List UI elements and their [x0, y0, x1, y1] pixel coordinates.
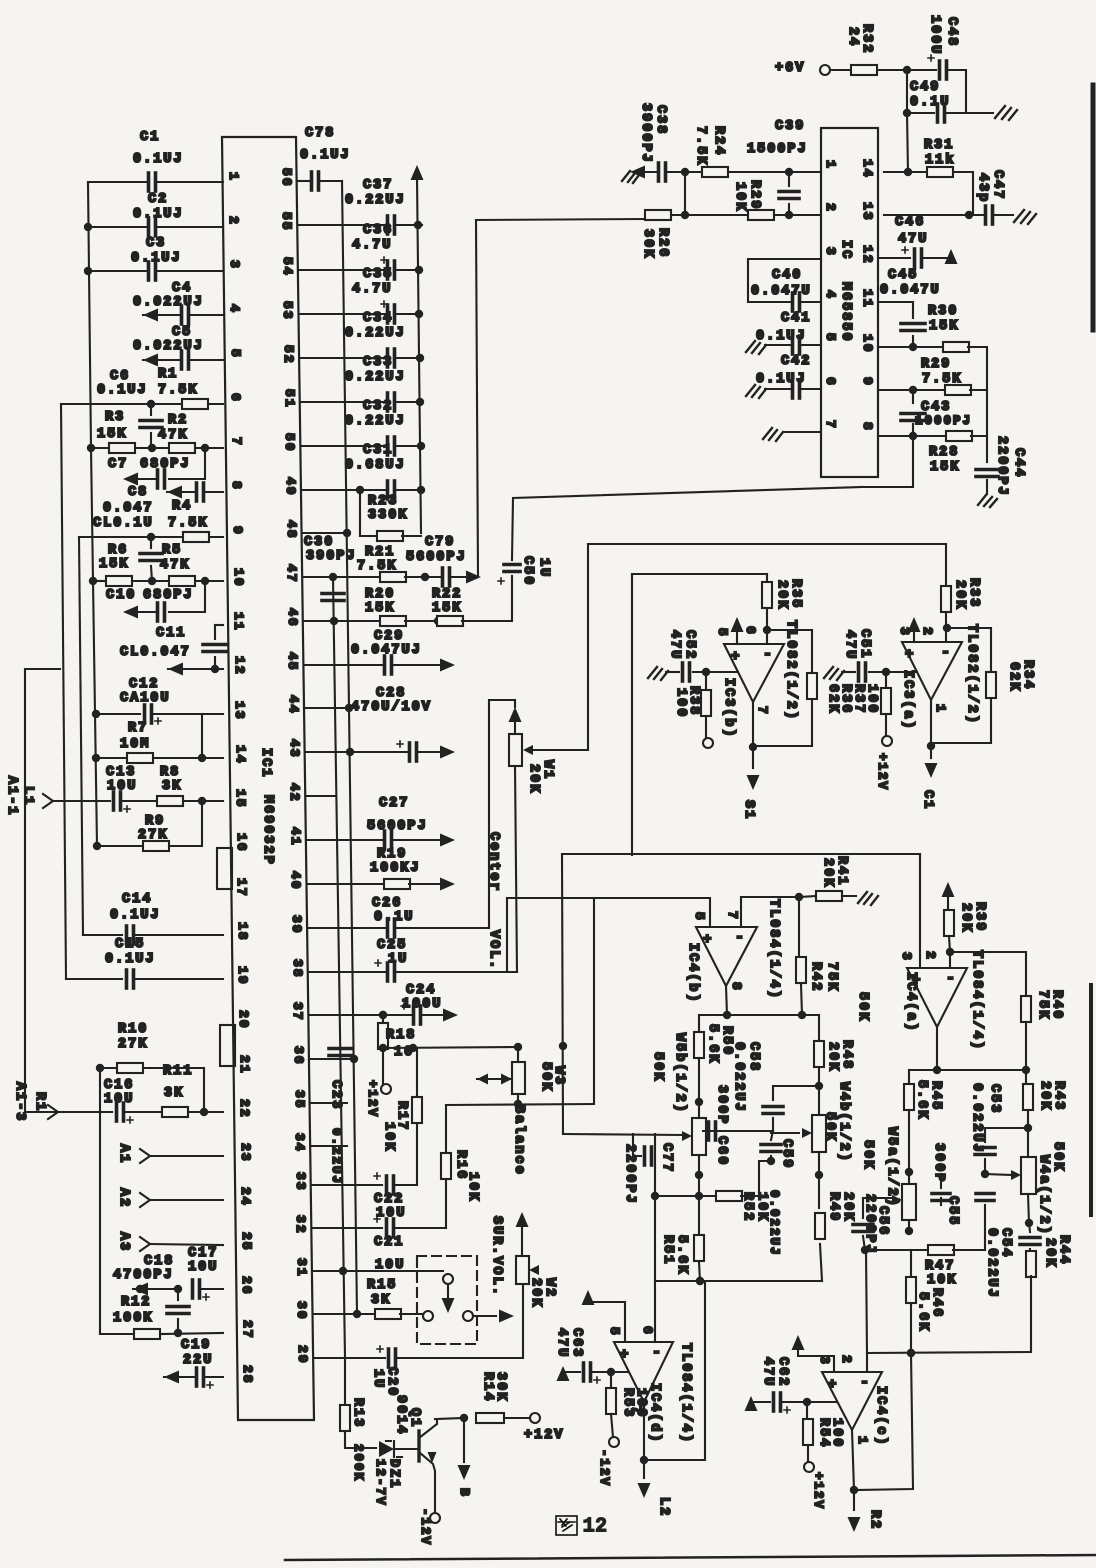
svg-text:R31: R31: [924, 138, 954, 153]
dashed switch box: [417, 1256, 477, 1344]
svg-text:41: 41: [288, 827, 303, 847]
svg-text:C63: C63: [569, 1328, 584, 1358]
IC3(b) output: [752, 702, 754, 747]
row 38 capacitor C25: [309, 971, 385, 973]
row 45 capacitor C29: [304, 664, 382, 666]
svg-text:TL082(1/2): TL082(1/2): [783, 620, 798, 721]
capacitor C42 pin6: [746, 385, 766, 398]
svg-text:+: +: [905, 647, 913, 663]
svg-text:R30: R30: [928, 304, 958, 319]
svg-text:W2: W2: [542, 1278, 557, 1298]
svg-text:C53: C53: [987, 1084, 1002, 1114]
svg-text:C5: C5: [172, 325, 192, 340]
svg-text:50K: 50K: [1050, 1142, 1065, 1172]
M65850 IC body: [821, 128, 878, 477]
svg-text:-12V: -12V: [597, 1449, 611, 1487]
svg-text:4.7U: 4.7U: [352, 282, 392, 297]
svg-text:C2: C2: [148, 192, 168, 207]
capacitor C56: [862, 1198, 864, 1218]
pin3 to C40 loop: [748, 259, 821, 302]
svg-text:5: 5: [607, 1327, 622, 1337]
svg-text:680PJ: 680PJ: [143, 588, 194, 603]
capacitor C30 on bus B: [322, 592, 344, 596]
svg-text:6: 6: [743, 626, 758, 636]
right edge mark middle: [1089, 985, 1093, 1215]
svg-text:C39: C39: [775, 119, 805, 134]
wire +6V node to pin14: [907, 113, 908, 172]
svg-text:C59: C59: [779, 1139, 794, 1169]
IC4(a) output: [936, 1027, 938, 1070]
svg-text:2: 2: [839, 1355, 854, 1365]
capacitor C47 row pin13: [884, 214, 983, 216]
svg-text:5: 5: [823, 333, 838, 343]
potentiometer W3 Balance: [514, 1043, 522, 1051]
svg-text:4700PJ: 4700PJ: [113, 1268, 174, 1283]
svg-text:56: 56: [279, 168, 294, 188]
IC4(d) feedback: [644, 1281, 705, 1460]
svg-text:2: 2: [920, 627, 935, 637]
svg-text:47U: 47U: [760, 1357, 775, 1387]
svg-text:C20: C20: [384, 1367, 399, 1397]
svg-text:30K: 30K: [640, 229, 655, 259]
IC4(c) + input enters left side: [835, 1401, 837, 1403]
svg-text:R21: R21: [365, 545, 395, 560]
long wire IC3 section to IC4 section: [562, 853, 920, 855]
svg-text:S1: S1: [741, 800, 756, 820]
capacitor C77: [633, 1134, 641, 1156]
svg-text:R40: R40: [1049, 990, 1064, 1020]
svg-text:47: 47: [284, 564, 299, 584]
svg-text:100: 100: [829, 1418, 844, 1448]
row 43 capacitor C28: [306, 751, 407, 753]
resistor R43: [1025, 1070, 1027, 1083]
capacitor C13 and resistor R8 row 15: [53, 800, 110, 802]
svg-text:IC1: IC1: [258, 748, 273, 778]
bus A vertical (from C78): [342, 181, 357, 1314]
svg-text:22: 22: [237, 1099, 252, 1119]
svg-text:W5a(1/2): W5a(1/2): [884, 1127, 899, 1208]
IC3(a) feedback with R34: [947, 628, 991, 671]
capacitor C78 row 56: [297, 180, 309, 182]
resistor R45: [908, 1070, 910, 1083]
svg-text:15: 15: [233, 789, 248, 809]
svg-text:38: 38: [290, 959, 305, 979]
resistor R35: [766, 574, 768, 581]
capacitor C52 with ground: [648, 667, 668, 680]
capacitor C8 row 8: [167, 486, 182, 499]
svg-text:26: 26: [239, 1276, 254, 1296]
capacitor C7 branch: [169, 448, 205, 479]
IC4(d) output: [643, 1402, 645, 1460]
svg-text:0.1UJ: 0.1UJ: [133, 207, 184, 222]
svg-text:5.6K: 5.6K: [914, 1080, 929, 1120]
svg-text:20K: 20K: [774, 580, 789, 610]
svg-text:54: 54: [280, 257, 295, 277]
svg-text:C14: C14: [122, 892, 152, 907]
svg-text:TL082(1/2): TL082(1/2): [964, 624, 979, 725]
svg-text:5: 5: [228, 349, 243, 359]
svg-text:R39: R39: [972, 902, 987, 932]
row 36 stub: [309, 1058, 354, 1060]
IC3(a) input resistor R33: [945, 544, 947, 586]
svg-text:100K: 100K: [113, 1311, 153, 1326]
svg-text:10: 10: [231, 568, 246, 588]
svg-text:35: 35: [292, 1090, 307, 1110]
svg-text:46: 46: [285, 608, 300, 628]
svg-text:14: 14: [860, 159, 875, 179]
svg-text:5.6K: 5.6K: [674, 1235, 689, 1275]
resistors R6 and R5 row 10: [89, 577, 97, 585]
svg-text:0.1UJ: 0.1UJ: [97, 383, 148, 398]
svg-text:R54: R54: [816, 1418, 831, 1448]
row 39 capacitor C26: [308, 927, 385, 929]
svg-text:B: B: [457, 1488, 472, 1498]
svg-text:1U: 1U: [536, 558, 551, 578]
resistor R24 pin1 wire: [685, 171, 702, 173]
svg-text:C15: C15: [115, 937, 145, 952]
IC4(a) output wire: [909, 1069, 1026, 1071]
svg-text:C19: C19: [181, 1338, 211, 1353]
svg-text:0.022UJ: 0.022UJ: [133, 295, 204, 310]
fig caption: [556, 1516, 577, 1535]
svg-text:R4: R4: [172, 499, 192, 514]
svg-text:A3: A3: [116, 1232, 131, 1252]
svg-text:5600PJ: 5600PJ: [406, 550, 467, 565]
resistor R53: [610, 1372, 612, 1388]
svg-text:15K: 15K: [365, 601, 395, 616]
svg-text:C40: C40: [772, 268, 802, 283]
svg-text:50: 50: [282, 433, 297, 453]
svg-text:62K: 62K: [825, 684, 840, 714]
left vertical bus rows 21-27: [99, 1068, 101, 1334]
svg-text:47K: 47K: [160, 558, 190, 573]
resistor R7: [92, 754, 100, 762]
capacitor C16 and resistor R11 row 22: [25, 1111, 112, 1113]
potentiometer W4b: [818, 1086, 820, 1115]
junction dots R52 line: [651, 1192, 659, 1200]
capacitor C11: [215, 624, 223, 626]
svg-text:TL084(1/4): TL084(1/4): [678, 1343, 693, 1444]
svg-text:C79: C79: [425, 535, 455, 550]
IC4(d) - input wire: [654, 1281, 656, 1342]
C1 output arrow: [930, 746, 932, 758]
svg-text:TL084(1/4): TL084(1/4): [766, 899, 781, 1000]
svg-text:C78: C78: [305, 126, 335, 141]
left bus 1 (C1-C7 rows): [88, 182, 91, 448]
IC4(c) - input wire: [867, 1352, 1031, 1353]
svg-text:R20: R20: [365, 587, 395, 602]
svg-text:2: 2: [226, 216, 241, 226]
svg-text:100U: 100U: [927, 15, 942, 55]
svg-text:-: -: [860, 1374, 869, 1391]
svg-text:27K: 27K: [138, 828, 168, 843]
resistor R1 row 6 wire: [61, 403, 180, 405]
wire pin8 node down-left loop: [860, 436, 913, 487]
IC4(d) op-amp triangle: [614, 1342, 673, 1402]
wire W5b bottom to R52 line: [698, 1175, 700, 1196]
svg-text:23: 23: [238, 1143, 253, 1163]
W1 wiper arrow: [523, 745, 533, 755]
svg-text:+12V: +12V: [811, 1472, 825, 1510]
svg-text:20K: 20K: [840, 1192, 855, 1222]
svg-text:R24: R24: [711, 126, 726, 156]
svg-text:SUR.VOL.: SUR.VOL.: [489, 1216, 504, 1297]
capacitor C33 row 51: [301, 401, 385, 403]
svg-text:C31: C31: [363, 443, 393, 458]
potentiometer W2 SUR.VOL: [521, 1226, 523, 1256]
svg-text:33: 33: [293, 1172, 308, 1192]
svg-text:0.1UJ: 0.1UJ: [133, 152, 184, 167]
W5a wiper: [892, 1195, 902, 1205]
svg-text:R26: R26: [655, 228, 670, 258]
potentiometer W5a: [908, 1172, 910, 1184]
ground arrow C38: [630, 166, 645, 179]
svg-text:0.1UJ: 0.1UJ: [105, 952, 156, 967]
svg-text:36: 36: [291, 1046, 306, 1066]
svg-text:15K: 15K: [432, 601, 462, 616]
row 42 stub to bus B: [306, 795, 336, 797]
svg-text:34: 34: [292, 1133, 307, 1153]
IC3(a) op-amp triangle: [902, 642, 962, 700]
svg-text:30: 30: [294, 1301, 309, 1321]
svg-text:3K: 3K: [162, 779, 182, 794]
svg-text:C8: C8: [128, 485, 148, 500]
transistor Q1: [417, 1431, 420, 1461]
svg-text:7: 7: [629, 1406, 644, 1416]
svg-text:10U: 10U: [104, 1092, 134, 1107]
resistor R37 to +12V: [885, 672, 887, 688]
W4a wiper wire: [985, 1174, 1013, 1175]
resistor R51: [698, 1196, 700, 1234]
svg-text:27: 27: [240, 1320, 255, 1340]
svg-text:R1: R1: [158, 367, 178, 382]
left bus 4 (rows 6-16 inner): [91, 448, 97, 846]
resistor R3 and R2 row 7: [87, 444, 95, 452]
resistor R48: [818, 1015, 820, 1040]
svg-text:A1-1: A1-1: [4, 776, 19, 816]
long wire from M65850 area down to C50: [512, 487, 862, 560]
svg-text:0.1U: 0.1U: [374, 910, 414, 925]
IC4(a) + input vertical: [919, 854, 921, 968]
switch left contact: [423, 1311, 433, 1321]
svg-text:3: 3: [899, 952, 914, 962]
svg-text:C28: C28: [376, 686, 406, 701]
svg-text:C27: C27: [379, 796, 409, 811]
svg-text:R44: R44: [1056, 1235, 1071, 1265]
svg-text:C12: C12: [129, 677, 159, 692]
capacitor C44: [986, 436, 988, 462]
svg-text:R14: R14: [480, 1372, 495, 1402]
svg-text:C18: C18: [144, 1254, 174, 1269]
svg-text:29: 29: [295, 1345, 310, 1365]
svg-text:50K: 50K: [538, 1062, 553, 1092]
capacitor C51 with ground: [824, 667, 844, 680]
row 40 resistor R19: [307, 883, 385, 885]
row 46 wire with R20 R22: [304, 620, 381, 622]
resistor R12 row 27: [100, 1333, 134, 1335]
svg-text:8: 8: [229, 481, 244, 491]
row 35 stub: [310, 1102, 347, 1104]
svg-text:18: 18: [235, 922, 250, 942]
capacitor C39: [788, 172, 790, 186]
svg-text:3K: 3K: [164, 1086, 184, 1101]
svg-text:75K: 75K: [1035, 990, 1050, 1020]
switch right contact: [463, 1311, 473, 1321]
svg-text:31: 31: [294, 1258, 309, 1278]
svg-text:11k: 11k: [925, 153, 955, 168]
capacitor C31 row 49: [302, 489, 385, 491]
IC4(b) - input wire: [741, 897, 799, 927]
svg-text:R33: R33: [966, 578, 981, 608]
svg-text:1: 1: [226, 172, 241, 182]
svg-text:0.1UJ: 0.1UJ: [110, 908, 161, 923]
svg-text:+: +: [703, 932, 711, 948]
svg-text:C16: C16: [104, 1078, 134, 1093]
svg-text:0.22UJ: 0.22UJ: [345, 326, 406, 341]
svg-text:C29: C29: [374, 629, 404, 644]
svg-text:11: 11: [231, 612, 246, 632]
resistor R41 and ground: [816, 891, 842, 901]
ground pin7: [785, 431, 821, 433]
svg-text:10U: 10U: [188, 1260, 218, 1275]
svg-text:+: +: [620, 1347, 628, 1363]
left bus 3 (rows 9-18): [79, 537, 83, 935]
svg-text:1500PJ: 1500PJ: [747, 142, 808, 157]
svg-text:+12V: +12V: [875, 753, 889, 791]
B output arrow: [463, 1418, 465, 1462]
capacitor C55 300P: [940, 1174, 942, 1188]
capacitor C63 and ground arrow: [557, 1366, 570, 1381]
svg-text:C1: C1: [920, 790, 935, 810]
svg-text:37: 37: [290, 1002, 305, 1022]
svg-text:10K: 10K: [381, 1122, 396, 1152]
svg-text:C32: C32: [363, 399, 393, 414]
far-left vertical wire: [24, 669, 26, 1112]
resistor R39: [944, 910, 954, 936]
IC3(b) power arrow: [736, 630, 738, 644]
svg-text:0.1UJ: 0.1UJ: [131, 251, 182, 266]
svg-text:0.1UJ: 0.1UJ: [300, 148, 351, 163]
capacitor C60 wire: [703, 1130, 773, 1132]
resistor R46: [910, 1250, 912, 1276]
svg-text:C48: C48: [944, 17, 959, 47]
svg-text:R42: R42: [808, 962, 823, 992]
svg-text:50K: 50K: [822, 1112, 837, 1142]
svg-text:R12: R12: [121, 1295, 151, 1310]
svg-text:5600PJ: 5600PJ: [367, 819, 428, 834]
svg-text:300P: 300P: [714, 1085, 729, 1125]
transistor Q1 collector wire and R14: [435, 1418, 464, 1419]
svg-text:R2: R2: [867, 1510, 882, 1530]
wire W1 wiper line to R33: [588, 543, 946, 545]
bus B vertical: [333, 577, 345, 1358]
svg-text:4: 4: [823, 290, 838, 300]
resistor R32: [831, 69, 850, 71]
L2 output arrow: [643, 1460, 645, 1478]
svg-text:25: 25: [239, 1232, 254, 1252]
svg-text:CA10U: CA10U: [120, 691, 171, 706]
svg-text:0.022UJ: 0.022UJ: [984, 1228, 999, 1299]
capacitor C54 and resistor R44: [1029, 1223, 1030, 1232]
svg-text:C56: C56: [875, 1206, 890, 1236]
svg-text:CL0.047: CL0.047: [120, 645, 191, 660]
svg-text:13: 13: [860, 202, 875, 222]
bottom rule line: [285, 1555, 1096, 1560]
R2 output arrow: [853, 1490, 855, 1510]
svg-text:R13: R13: [350, 1398, 365, 1428]
svg-text:3K: 3K: [371, 1293, 391, 1308]
svg-text:3: 3: [817, 1356, 832, 1366]
vertical to W5b wiper: [562, 854, 563, 1134]
svg-text:1U: 1U: [388, 952, 408, 967]
svg-text:0.1UJ: 0.1UJ: [756, 329, 807, 344]
right edge mark top: [1091, 85, 1096, 330]
svg-text:C23: C23: [328, 1080, 343, 1110]
svg-text:47U: 47U: [898, 232, 928, 247]
capacitor C53: [975, 1146, 995, 1150]
svg-text:VOL.: VOL.: [486, 930, 501, 970]
svg-text:100U: 100U: [402, 997, 442, 1012]
svg-text:W4b(1/2): W4b(1/2): [836, 1082, 851, 1163]
svg-text:R41: R41: [834, 856, 849, 886]
svg-text:14: 14: [233, 745, 248, 765]
svg-text:C36: C36: [363, 223, 393, 238]
W3 wiper double arrow: [477, 1074, 488, 1085]
svg-text:R46: R46: [929, 1288, 944, 1318]
svg-text:1000PJ: 1000PJ: [915, 414, 972, 428]
svg-text:C1: C1: [140, 130, 160, 145]
svg-text:C21: C21: [374, 1235, 404, 1250]
resistor R28 pin8 row: [878, 435, 947, 437]
svg-text:1: 1: [933, 704, 948, 714]
svg-text:-: -: [763, 646, 772, 663]
right cap ladder vertical bus: [417, 178, 421, 533]
svg-text:C10: C10: [106, 588, 136, 603]
svg-text:R47: R47: [925, 1259, 955, 1274]
svg-text:0.68UJ: 0.68UJ: [345, 458, 406, 473]
svg-text:R7: R7: [128, 721, 148, 736]
svg-text:0.022UJ: 0.022UJ: [969, 1083, 984, 1154]
svg-text:50K: 50K: [650, 1052, 665, 1082]
svg-text:R52: R52: [740, 1192, 755, 1222]
svg-text:C33: C33: [363, 355, 393, 370]
svg-text:IC: IC: [838, 240, 853, 260]
svg-text:2: 2: [923, 951, 938, 961]
svg-text:390PJ: 390PJ: [306, 549, 357, 564]
svg-text:IC3(a): IC3(a): [900, 670, 915, 731]
svg-text:0.047U: 0.047U: [880, 283, 941, 298]
W2 wiper arrow: [529, 1265, 539, 1275]
svg-text:R5: R5: [162, 543, 182, 558]
svg-text:+12V: +12V: [524, 1428, 564, 1443]
IC4(a) op-amp triangle: [907, 968, 967, 1027]
svg-text:10: 10: [860, 334, 875, 354]
svg-text:C37: C37: [363, 178, 393, 193]
vertical x655 wiper to IC4d: [654, 1134, 656, 1281]
svg-text:C38: C38: [653, 105, 668, 135]
svg-text:20K: 20K: [958, 903, 973, 933]
row 47 wire with R21 C79: [303, 576, 381, 578]
IC4(b) op-amp triangle: [696, 927, 757, 986]
capacitor C50: [504, 563, 520, 567]
svg-text:53: 53: [280, 301, 295, 321]
junction dot C31 R23: [356, 486, 364, 494]
svg-text:43: 43: [287, 739, 302, 759]
svg-text:7: 7: [725, 911, 740, 921]
svg-text:+: +: [828, 1377, 836, 1393]
wire R43 to C53: [985, 1128, 1028, 1142]
svg-text:0.047UJ: 0.047UJ: [351, 643, 422, 658]
